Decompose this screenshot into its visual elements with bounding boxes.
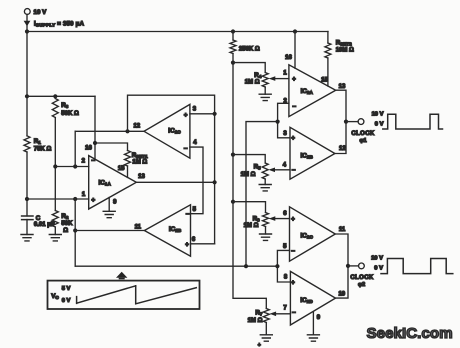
svg-text:5 V: 5 V (62, 286, 71, 292)
label pin 2 IC1A (82, 158, 86, 164)
svg-text:φ2: φ2 (358, 282, 365, 288)
wire supply vertical left rail (26, 14, 28, 234)
arrow to waveform box (116, 272, 127, 280)
svg-text:1M Ω: 1M Ω (245, 79, 260, 85)
node clock2 junction (346, 264, 350, 268)
resistor 250K (230, 40, 236, 54)
label R3 value (61, 111, 79, 117)
label R4 (245, 72, 262, 86)
svg-text:15: 15 (321, 77, 328, 83)
svg-text:−: − (292, 167, 296, 174)
label CLOCK2 (350, 275, 374, 281)
svg-text:50K: 50K (61, 221, 73, 227)
wire R3 branch horizontal (27, 95, 95, 97)
ground below C (21, 235, 33, 241)
logo SeekIC.com (367, 325, 453, 342)
label C value (34, 222, 55, 228)
svg-text:CLOCK: CLOCK (350, 275, 374, 281)
label 10V (34, 9, 48, 16)
label pin 4 IC1C (193, 140, 197, 146)
svg-text:+: + (291, 217, 295, 223)
svg-text:0 V: 0 V (374, 266, 383, 272)
wire loop over IC1C (128, 95, 215, 244)
svg-text:−: − (186, 211, 190, 218)
resistor R4 (262, 73, 268, 88)
svg-text:+: + (91, 197, 95, 204)
label Isupply (34, 21, 85, 27)
svg-text:CLOCK: CLOCK (351, 131, 375, 137)
node pin2 feedback join (73, 164, 77, 168)
node VC tap 2 (275, 264, 279, 268)
node pin2 pin3 junction (276, 120, 280, 124)
op-amp IC2C (290, 207, 336, 261)
wire IC1A pin13 output (136, 181, 214, 183)
label pin 12 IC1C (133, 124, 140, 130)
svg-text:IC2D: IC2D (300, 297, 313, 304)
label pin 9 IC2D (317, 315, 321, 321)
svg-text:+: + (258, 342, 261, 348)
label pin 8 IC2D (284, 275, 288, 281)
wiper R7 to IC2D pin7 (270, 312, 291, 317)
label 0V wf2 (374, 266, 383, 272)
label 10V wf2 (371, 256, 383, 262)
ground below R5 (259, 185, 271, 191)
node pin1 feedback join (73, 197, 77, 201)
wire pin2 pin3 to VC (246, 103, 290, 266)
wire IC1C pin3 (190, 113, 215, 115)
svg-text:250K Ω: 250K Ω (239, 46, 260, 52)
plus IC2B (291, 136, 295, 142)
resistor R2 (52, 211, 58, 228)
plus IC1B (185, 242, 189, 248)
ground IC1A (103, 211, 115, 217)
svg-text:16: 16 (85, 146, 92, 152)
label R3 (61, 102, 68, 109)
wire IC1C pin12 output (75, 130, 144, 132)
svg-text:Ω: Ω (63, 228, 68, 234)
label IC1C (168, 128, 181, 135)
op-amp IC2B (290, 127, 335, 179)
ground below R4 (259, 94, 271, 100)
resistor RSET2 (325, 43, 331, 58)
svg-text:+: + (185, 242, 189, 248)
svg-text:R7: R7 (255, 310, 262, 317)
current arrow Isupply (24, 21, 31, 26)
svg-text:−: − (292, 310, 296, 317)
node IC2A pin16 tap (293, 29, 297, 33)
node pin2 R3R2 tap (53, 164, 57, 168)
label IC2B (301, 153, 314, 160)
label phi2 (358, 282, 365, 288)
wire sawtooth VC line (75, 265, 277, 267)
svg-text:+: + (291, 280, 295, 286)
label IC2D (300, 297, 313, 304)
label pin 3 IC1C (193, 107, 197, 113)
label IC2A (301, 88, 314, 95)
wire IC1A pin2 (55, 166, 88, 168)
node R4 branch (231, 61, 235, 65)
plus IC2D (291, 280, 295, 286)
label R2 ohm (63, 228, 68, 234)
wire to IC1A pin16 (95, 96, 128, 159)
label pin 6 IC2C (283, 211, 287, 217)
wire IC2A output (335, 90, 346, 153)
terminal clock1 (358, 119, 364, 125)
label pin 13 IC2A (339, 84, 346, 90)
svg-text:1M Ω: 1M Ω (248, 318, 263, 324)
label RSET1 (132, 152, 148, 159)
wire R5 branch (233, 155, 265, 185)
svg-text:0.01 μF: 0.01 μF (34, 222, 55, 228)
label R5 (241, 164, 261, 179)
svg-text:IC2B: IC2B (301, 153, 314, 160)
label pin 4 IC2B (283, 162, 287, 168)
op-amp IC1B (144, 205, 190, 256)
svg-text:+: + (184, 113, 188, 119)
minus IC1B (186, 211, 190, 218)
svg-text:IC2A: IC2A (301, 88, 314, 95)
wire RSET2 leads (327, 32, 329, 87)
svg-text:IC2C: IC2C (301, 232, 314, 239)
plus IC1C (184, 113, 188, 119)
plus IC1A (91, 197, 95, 204)
minus IC1A (91, 158, 95, 165)
node pin1 rail junction (25, 197, 29, 201)
label RSET2 (336, 39, 352, 46)
wire R7 to ground (265, 323, 267, 335)
node VC tap 1 (244, 264, 248, 268)
ground IC2D (307, 335, 319, 341)
label VC (51, 293, 59, 300)
wire IC1B pin11 output (75, 230, 144, 232)
ground stub IC1A pin9 (108, 198, 110, 212)
resistor R1 (24, 136, 30, 152)
wire chain rail (233, 32, 266, 309)
label pin 13 IC1A (138, 174, 145, 180)
wire R6 branch (233, 202, 266, 234)
polarity mark (258, 342, 261, 348)
waveform clock1 (383, 114, 443, 129)
svg-text:VC: VC (51, 293, 59, 300)
resistor R5 (262, 163, 268, 179)
label phi1 (359, 138, 366, 144)
label RSET1 value (132, 160, 147, 166)
ground below R6 (260, 234, 272, 240)
label IC2C (301, 232, 314, 239)
resistor R7 (263, 309, 269, 323)
op-amp IC2A (289, 65, 336, 117)
node pin16 IC1A (93, 141, 97, 145)
label pin 16 IC1A (85, 146, 92, 152)
svg-text:11: 11 (135, 224, 142, 230)
wire IC2A pin16 (294, 32, 296, 69)
wire pin5 pin8 to VC (277, 250, 290, 282)
label pin 7 IC2D (283, 306, 287, 312)
label 5V (62, 286, 71, 292)
svg-text:12: 12 (133, 124, 140, 130)
minus IC2B (292, 167, 296, 174)
waveform clock2 (381, 259, 453, 274)
label pin 12 IC2B (339, 146, 346, 152)
resistor R3 (52, 99, 58, 118)
svg-text:−: − (184, 145, 188, 152)
svg-text:+: + (292, 77, 296, 83)
op-amp IC2D (290, 271, 335, 325)
label pin 6 IC1B (192, 237, 196, 243)
node RSET1 top junction (125, 129, 129, 133)
label pin 1 IC1A (82, 192, 86, 198)
label R1 value (34, 147, 52, 153)
svg-text:+: + (291, 136, 295, 142)
svg-text:−: − (91, 158, 95, 165)
svg-text:IC1C: IC1C (168, 128, 181, 135)
node pin3 junction (213, 112, 217, 116)
label pin 11 IC1B (135, 224, 142, 230)
wire R4 branch (233, 63, 265, 95)
plus IC2C (291, 217, 295, 223)
label R2 value (61, 221, 73, 227)
ground stub IC2D pin9 (312, 312, 314, 335)
svg-text:1M Ω: 1M Ω (132, 160, 147, 166)
svg-text:R1: R1 (34, 138, 41, 145)
label 0V (62, 298, 71, 304)
svg-text:75K Ω: 75K Ω (34, 147, 52, 153)
wire IC2C output (335, 234, 348, 298)
label RSET2 value (336, 47, 354, 53)
svg-text:−: − (292, 104, 296, 111)
label R7 (248, 310, 263, 325)
sawtooth waveform (77, 286, 197, 304)
svg-text:10 V: 10 V (372, 112, 384, 118)
svg-text:16: 16 (285, 55, 292, 61)
node IC1A output junction (213, 180, 217, 184)
svg-text:ISUPPLY = 350 μA: ISUPPLY = 350 μA (34, 21, 85, 27)
svg-text:10: 10 (338, 291, 345, 297)
svg-text:−: − (291, 248, 295, 255)
node 250K top (231, 29, 235, 33)
wire pin1 to sawtooth node (74, 199, 76, 266)
svg-text:13: 13 (138, 174, 145, 180)
svg-text:0 V: 0 V (62, 298, 71, 304)
svg-text:C: C (36, 215, 41, 222)
wire top 10V rail (27, 31, 328, 33)
svg-text:SeekIC.com: SeekIC.com (367, 325, 453, 342)
op-amp IC1A (89, 156, 137, 209)
label IC1B (169, 226, 182, 233)
minus IC2D (292, 310, 296, 317)
svg-text:10 V: 10 V (34, 9, 48, 16)
svg-text:12: 12 (339, 146, 346, 152)
svg-text:RSET1: RSET1 (132, 152, 148, 159)
svg-text:0 V: 0 V (375, 122, 384, 128)
node supply junction (25, 29, 29, 33)
node R5 branch (231, 153, 235, 157)
resistor RSET1 (125, 151, 131, 167)
op-amp IC1C (144, 104, 190, 158)
label 250K (239, 46, 260, 52)
label C (36, 215, 41, 222)
wiper R4 to IC2A pin1 (269, 76, 289, 81)
plus IC2A (292, 77, 296, 83)
minus IC2A (292, 104, 296, 111)
svg-text:R6: R6 (253, 215, 260, 222)
node pin11 join (73, 228, 77, 232)
svg-text:φ1: φ1 (359, 138, 366, 144)
svg-text:R5: R5 (254, 164, 261, 171)
wire IC1B pin6 (191, 243, 215, 245)
wire RSET1 to pin15 (127, 166, 129, 177)
svg-text:R4: R4 (254, 72, 261, 79)
wire IC1C pin4 to IC1B pin5 (190, 147, 203, 214)
label pin 11 IC2C (339, 227, 346, 233)
node R6 branch (231, 200, 235, 204)
svg-text:11: 11 (339, 227, 346, 233)
capacitor C (22, 216, 33, 220)
label R1 (34, 138, 41, 145)
resistor R6 (263, 213, 269, 227)
label pin 5 IC1B (193, 207, 197, 213)
svg-text:1M Ω: 1M Ω (241, 172, 256, 178)
waveform box (48, 281, 200, 309)
svg-text:RSET2: RSET2 (336, 39, 352, 46)
label pin 9 IC1A (113, 199, 117, 205)
wire clock2 stub (348, 265, 359, 267)
label pin 5 IC2C (283, 244, 287, 250)
minus IC1C (184, 145, 188, 152)
power terminal 10V (24, 9, 30, 15)
label pin 10 IC2D (338, 291, 345, 297)
svg-text:15: 15 (118, 166, 125, 172)
label R2 (61, 213, 68, 220)
minus IC2C (291, 248, 295, 255)
wire clock1 stub (346, 121, 358, 123)
node R3 branch (25, 94, 29, 98)
wiper R5 to IC2B pin4 (268, 168, 290, 173)
wire IC1A pin1 (27, 198, 89, 200)
svg-text:R2: R2 (61, 213, 68, 220)
terminal clock2 (359, 263, 365, 269)
label R6 (244, 215, 260, 229)
svg-text:50K Ω: 50K Ω (61, 111, 79, 117)
label IC1A (99, 180, 112, 187)
label pin 15 IC1A (118, 166, 125, 172)
svg-text:10 V: 10 V (371, 256, 383, 262)
ground below R7 (260, 335, 272, 341)
label 10V wf1 (372, 112, 384, 118)
wire IC1C output to pin2 (74, 131, 76, 166)
label pin 3 IC2B (283, 131, 287, 137)
wire R3 to R2 (54, 96, 56, 234)
label CLOCK1 (351, 131, 375, 137)
node clock1 junction (344, 120, 348, 124)
svg-text:IC1B: IC1B (169, 226, 182, 233)
wiper R6 to IC2C pin6 (269, 216, 290, 221)
label pin 2 IC2A (284, 99, 288, 105)
svg-text:IC1A: IC1A (99, 180, 112, 187)
label pin 16 IC2A (285, 55, 292, 61)
ground below R2 (49, 235, 61, 241)
label pin 15 IC2A (321, 77, 328, 83)
label pin 1 IC2A (283, 71, 287, 77)
svg-text:R3: R3 (61, 102, 68, 109)
svg-text:13: 13 (339, 84, 346, 90)
svg-text:10M Ω: 10M Ω (336, 47, 354, 53)
label 0V wf1 (375, 122, 384, 128)
node R3 top (53, 94, 57, 98)
